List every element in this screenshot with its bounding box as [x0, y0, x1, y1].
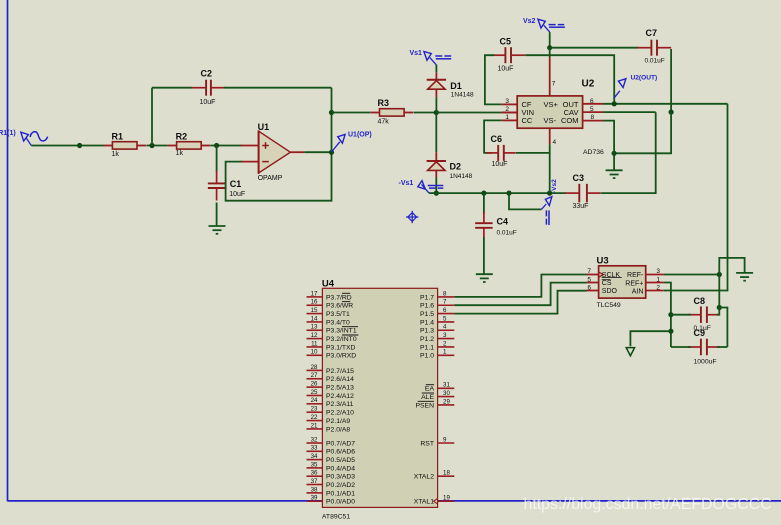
- U2 pin 1 CC stub: [502, 119, 518, 121]
- svg-text:P0.3/AD3: P0.3/AD3: [326, 474, 355, 481]
- U4 pin 8 P1.7: [420, 290, 454, 301]
- U4 pin 3 P1.2: [420, 332, 454, 343]
- capacitor C2: [192, 80, 226, 96]
- diode D2: [427, 161, 446, 170]
- svg-text:C9: C9: [694, 328, 706, 338]
- wire negative rail: [436, 192, 566, 194]
- svg-text:-Vs2: -Vs2: [551, 179, 558, 193]
- U4 pin 10 P3.0/RXD: [307, 349, 357, 360]
- U2 pin 2 VIN stub: [502, 111, 518, 113]
- diode D1: [427, 80, 446, 89]
- svg-text:1000uF: 1000uF: [694, 358, 717, 365]
- wire R3 to node E: [414, 112, 437, 114]
- wire node J down to U2 VS+ pin 7: [549, 48, 551, 96]
- svg-text:P3.3/INT1: P3.3/INT1: [326, 328, 357, 335]
- wire C5 left to CF pin: [485, 55, 502, 104]
- label C7 value 0.01uF: [645, 57, 665, 64]
- capacitor C5: [491, 47, 525, 63]
- label C8: [694, 296, 706, 306]
- wire Vs2 down to node J: [549, 32, 551, 48]
- node K junction C7/CAV crossing: [669, 110, 674, 115]
- wire C8 right bend up to node O: [717, 308, 719, 315]
- U4 pin 13 P3.3/INT1: [307, 324, 359, 335]
- node O junction C8 right: [717, 305, 722, 310]
- svg-text:P0.4/AD4: P0.4/AD4: [326, 465, 355, 472]
- svg-text:COM: COM: [561, 116, 579, 125]
- svg-text:24: 24: [311, 397, 318, 404]
- node M junction OUT/C5: [612, 101, 617, 106]
- wire CAV pin to C3 riser: [603, 111, 656, 113]
- svg-text:P2.5/A13: P2.5/A13: [326, 385, 354, 392]
- wire C8 left lead rail: [671, 314, 691, 316]
- svg-text:10uF: 10uF: [498, 65, 514, 72]
- label C4 value 0.01uF: [497, 230, 517, 237]
- U4 pin 24 P2.3/A11: [307, 397, 354, 408]
- svg-text:P2.2/A10: P2.2/A10: [326, 410, 354, 417]
- wire C1 to ground: [216, 203, 218, 227]
- wire P1.7 to U3 SCLK: [454, 275, 586, 297]
- U2 pin 8 COM stub: [583, 120, 603, 122]
- wire REF- ground hook: [719, 258, 744, 275]
- label U1: [258, 122, 270, 132]
- ground below C4: [476, 274, 493, 282]
- U4 pin 37 P0.2/AD2: [307, 478, 356, 489]
- pin 3 stub CF: [502, 103, 518, 105]
- sheet border bottom edge: [8, 500, 781, 502]
- label U2(OUT): [631, 74, 658, 81]
- U2 pin 5 CAV stub: [583, 111, 603, 113]
- label C2: [201, 69, 213, 79]
- svg-text:Vs1: Vs1: [410, 50, 423, 57]
- U4 pin 12 P3.2/INT0: [307, 332, 359, 343]
- svg-text:P2.4/A12: P2.4/A12: [326, 393, 354, 400]
- label C8 value 0.1uF: [694, 325, 711, 332]
- U3 clock mark: [599, 272, 604, 277]
- label R3: [378, 98, 390, 108]
- svg-text:ALE: ALE: [421, 394, 434, 401]
- U4 pin 31 EA: [425, 382, 454, 393]
- U2 pin 4 VS- stub: [549, 128, 551, 144]
- U3 SCLK underline: [602, 277, 622, 279]
- ground for REF-: [736, 273, 753, 281]
- wire C6 right to VS- line: [516, 152, 550, 154]
- wire R2 to op-amp + input: [210, 145, 241, 147]
- U4 pin 35 P0.4/AD4: [307, 461, 356, 472]
- input sine wave symbol: [30, 132, 47, 141]
- U4 pin 32 P0.7/AD7: [307, 436, 356, 447]
- wire C5 right to OUT node: [525, 55, 614, 104]
- node B junction R2/C1: [214, 143, 219, 148]
- svg-text:11: 11: [311, 340, 318, 347]
- U3 left pin numbers 7 5 6: [587, 268, 591, 291]
- U4 pin 15 P3.5/T1: [307, 307, 351, 318]
- svg-text:R3: R3: [378, 98, 390, 108]
- U2 left pin numbers 3 2 1: [505, 98, 509, 121]
- U4 pin 17 P3.7/RD: [307, 290, 352, 301]
- svg-text:P1.5: P1.5: [420, 311, 434, 318]
- svg-text:4: 4: [443, 324, 447, 331]
- power terminal -Vs1: [418, 181, 444, 193]
- svg-text:P2.7/A15: P2.7/A15: [326, 368, 354, 375]
- U4 pin 30 ALE: [421, 390, 454, 401]
- svg-text:25: 25: [311, 389, 318, 396]
- svg-text:P3.2/INT0: P3.2/INT0: [326, 336, 357, 343]
- wire P1.5 to U3 SDO: [454, 291, 586, 314]
- U4 pin 21 P2.0/A8: [307, 422, 351, 433]
- U4 pin 27 P2.6/A14: [307, 372, 355, 383]
- svg-text:U4: U4: [322, 278, 335, 289]
- node C output junction: [329, 150, 334, 155]
- label C6 value 10uF: [492, 161, 508, 168]
- U2 pin labels centre: [544, 100, 559, 125]
- svg-text:AIN: AIN: [632, 288, 644, 295]
- svg-text:0.01uF: 0.01uF: [645, 57, 665, 64]
- svg-text:AD736: AD736: [583, 149, 604, 156]
- wire C7 branch down to COM line: [614, 112, 671, 153]
- svg-text:U2: U2: [582, 79, 595, 90]
- wire Vs1 to D1: [435, 65, 437, 80]
- wire op-amp - input feedback: [226, 152, 332, 200]
- svg-text:C6: C6: [491, 134, 503, 144]
- U2 right pin numbers 6 5 8: [590, 98, 595, 121]
- U4 pin 33 P0.6/AD6: [307, 445, 356, 456]
- svg-text:C3: C3: [573, 173, 585, 183]
- svg-text:OPAMP: OPAMP: [258, 175, 283, 182]
- power terminal -Vs2: [541, 197, 552, 225]
- wire D2 to node F: [435, 171, 437, 194]
- wire -Vs1 to node F: [429, 192, 436, 194]
- U2 pin labels right: [561, 100, 579, 125]
- label U1 type OPAMP: [258, 175, 283, 182]
- svg-text:P1.0: P1.0: [420, 353, 434, 360]
- ground below COM: [606, 170, 623, 178]
- svg-text:29: 29: [443, 398, 450, 405]
- U3 CS overline: [602, 279, 611, 281]
- svg-text:VS-: VS-: [544, 116, 557, 125]
- node G junction C4: [481, 191, 486, 196]
- wire op-amp output to node C: [304, 151, 331, 153]
- U4 pin 28 P2.7/A15: [307, 364, 355, 375]
- node E junction diodes/VIN: [434, 110, 439, 115]
- svg-text:U2(OUT): U2(OUT): [631, 74, 658, 81]
- svg-text:18: 18: [443, 470, 450, 477]
- capacitor C9: [688, 339, 720, 356]
- label U3: [597, 256, 609, 267]
- capacitor C3: [565, 184, 601, 203]
- wire -Vs2 tap jog: [509, 193, 541, 209]
- pin 4 number: [553, 139, 557, 146]
- capacitor C1: [208, 171, 226, 201]
- svg-text:U1(OP): U1(OP): [348, 131, 372, 138]
- svg-text:17: 17: [311, 290, 318, 297]
- U4 pin 39 P0.0/AD0: [307, 495, 356, 506]
- svg-text:D2: D2: [450, 161, 462, 171]
- wire C4 to ground: [483, 237, 485, 274]
- svg-text:P2.1/A9: P2.1/A9: [326, 418, 350, 425]
- svg-text:16: 16: [311, 299, 318, 306]
- svg-text:P0.1/AD1: P0.1/AD1: [326, 490, 355, 497]
- svg-text:5: 5: [443, 315, 447, 322]
- resistor R2: [168, 142, 211, 149]
- node N junction REF-: [717, 272, 722, 277]
- wire node O to right rail: [719, 308, 727, 348]
- U4 pin 1 P1.0: [420, 349, 454, 360]
- svg-text:27: 27: [311, 372, 318, 379]
- ground below C1: [209, 226, 226, 234]
- svg-text:14: 14: [311, 315, 318, 322]
- svg-text:https://blog.csdn.net/AEFDOGCC: https://blog.csdn.net/AEFDOGCCC: [524, 496, 772, 513]
- svg-text:Vs2: Vs2: [523, 18, 536, 25]
- U2 pin 6 OUT stub: [583, 103, 603, 105]
- U4 pin 2 P1.1: [420, 340, 454, 351]
- wire C2 rail left segment: [152, 87, 192, 89]
- label -Vs2 rotated: [551, 179, 558, 193]
- svg-text:33uF: 33uF: [573, 203, 589, 210]
- label C1: [230, 179, 242, 189]
- label D2: [450, 161, 462, 171]
- svg-text:38: 38: [311, 486, 318, 493]
- wire node N down to C8 node: [718, 275, 720, 308]
- label R2 value 1k: [176, 150, 184, 157]
- node input junction: [77, 143, 82, 148]
- svg-text:P3.5/T1: P3.5/T1: [326, 311, 350, 318]
- U4 pin 38 P0.1/AD1: [307, 486, 356, 497]
- svg-text:CC: CC: [522, 116, 533, 125]
- U4 pin 29 PSEN: [415, 398, 454, 409]
- svg-text:12: 12: [311, 332, 318, 339]
- wire node G to C4: [483, 193, 485, 214]
- label D2 type 1N4148: [450, 173, 473, 180]
- sheet border left edge: [7, 0, 9, 501]
- U4 pin 6 P1.5: [420, 307, 454, 318]
- svg-text:7: 7: [552, 80, 556, 87]
- svg-text:XTAL2: XTAL2: [414, 474, 434, 481]
- power terminal Vs1 label: [410, 50, 423, 57]
- label C9 value 1000uF: [694, 358, 717, 365]
- U4 pin 11 P3.1/TXD: [307, 340, 356, 351]
- svg-text:13: 13: [311, 324, 318, 331]
- svg-text:REF+: REF+: [625, 280, 643, 287]
- terminal arrow down: [626, 348, 634, 356]
- svg-text:6: 6: [443, 307, 447, 314]
- label C9: [694, 328, 706, 338]
- U2 pin labels left: [522, 100, 535, 125]
- svg-text:23: 23: [311, 406, 318, 413]
- wire C9 left lead rail: [671, 346, 691, 348]
- svg-text:-Vs1: -Vs1: [399, 180, 414, 187]
- svg-text:1N4148: 1N4148: [451, 91, 474, 98]
- svg-text:P0.0/AD0: P0.0/AD0: [326, 499, 355, 506]
- U4 pin 26 P2.5/A13: [307, 381, 355, 392]
- svg-text:10uF: 10uF: [229, 191, 245, 198]
- node L junction COM riser: [612, 151, 617, 156]
- U4 pin 36 P0.3/AD3: [307, 470, 356, 481]
- svg-text:D1: D1: [450, 81, 462, 91]
- svg-text:P1.3: P1.3: [420, 328, 434, 335]
- svg-text:19: 19: [443, 495, 450, 502]
- wire tap to output terminal: [630, 331, 671, 346]
- svg-text:C4: C4: [497, 216, 509, 226]
- node D junction R3 branch: [329, 110, 334, 115]
- svg-text:10: 10: [311, 349, 318, 356]
- svg-text:TLC549: TLC549: [597, 302, 621, 309]
- wire C2 rail right segment: [224, 87, 332, 89]
- label C3 value 33uF: [573, 203, 589, 210]
- node H junction -Vs2 tap: [506, 191, 511, 196]
- svg-text:1k: 1k: [176, 150, 184, 157]
- svg-text:VS+: VS+: [544, 100, 559, 109]
- power terminal -Vs1 label: [399, 180, 414, 187]
- wire VS- pin down to node I: [549, 144, 551, 193]
- wire node A up to C2 rail: [151, 88, 153, 146]
- power terminal Vs2: [538, 19, 565, 32]
- wire node B down to C1: [216, 146, 218, 172]
- node Q junction output terminal tap: [668, 329, 673, 334]
- label R1 value 1k: [112, 151, 120, 158]
- node A junction R1-R2/C2: [149, 143, 154, 148]
- svg-text:P0.6/AD6: P0.6/AD6: [326, 449, 355, 456]
- U4 pin 4 P1.3: [420, 324, 454, 335]
- label C2 value 10uF: [200, 99, 216, 106]
- node F junction negative rail left: [434, 191, 439, 196]
- wire REF+ to C8/C9 left rail: [664, 283, 671, 348]
- terminal arrow U2(OUT): [614, 79, 626, 98]
- svg-text:AT89C51: AT89C51: [322, 514, 350, 521]
- svg-text:P0.7/AD7: P0.7/AD7: [326, 440, 355, 447]
- label D1 type 1N4148: [451, 91, 474, 98]
- svg-text:10uF: 10uF: [200, 99, 216, 106]
- svg-text:P0.2/AD2: P0.2/AD2: [326, 482, 355, 489]
- U4 pin 22 P2.1/A9: [307, 414, 351, 425]
- wire R1 to R2: [146, 145, 167, 147]
- power terminal Vs1: [424, 52, 451, 65]
- wire OUT pin to riser: [603, 103, 728, 105]
- svg-text:22: 22: [311, 414, 318, 421]
- U4 pin 19 XTAL1: [414, 495, 455, 506]
- label R3 value 47k: [378, 118, 390, 125]
- svg-text:REF-: REF-: [627, 272, 644, 279]
- svg-text:C2: C2: [201, 69, 213, 79]
- svg-text:P3.0/RXD: P3.0/RXD: [326, 353, 356, 360]
- svg-text:33: 33: [311, 445, 318, 452]
- svg-text:P3.6/WR: P3.6/WR: [326, 303, 353, 310]
- wire C7 right down to CAV node: [670, 49, 672, 112]
- svg-text:7: 7: [443, 299, 447, 306]
- node J junction Vs2 rail: [547, 45, 552, 50]
- label U1(OP): [348, 131, 372, 138]
- wire P1.6 to U3 CS: [454, 283, 586, 306]
- svg-text:36: 36: [311, 470, 318, 477]
- resistor R1: [103, 142, 146, 149]
- wire node E to D2: [435, 113, 437, 161]
- svg-text:2: 2: [443, 340, 447, 347]
- svg-text:0.01uF: 0.01uF: [497, 230, 517, 237]
- svg-text:39: 39: [311, 495, 318, 502]
- U4 pin 34 P0.5/AD5: [307, 453, 356, 464]
- svg-text:37: 37: [311, 478, 318, 485]
- svg-text:10uF: 10uF: [492, 161, 508, 168]
- svg-text:4: 4: [553, 139, 557, 146]
- svg-text:47k: 47k: [378, 118, 390, 125]
- label R2: [176, 131, 188, 141]
- svg-text:P2.0/A8: P2.0/A8: [326, 426, 350, 433]
- svg-text:P1.1: P1.1: [420, 344, 434, 351]
- svg-text:PSEN: PSEN: [415, 402, 434, 409]
- op-amp U1: [241, 131, 305, 174]
- svg-text:P1.7: P1.7: [420, 294, 434, 301]
- svg-text:3: 3: [443, 332, 447, 339]
- svg-text:21: 21: [311, 422, 318, 429]
- svg-text:34: 34: [311, 453, 318, 460]
- label U2: [582, 79, 595, 90]
- label C1 value 10uF: [229, 191, 245, 198]
- wire CC pin to C6: [484, 120, 502, 152]
- input terminal R1(1) label: [0, 130, 16, 137]
- svg-text:SCLK: SCLK: [602, 272, 621, 279]
- U3 pin stubs left: [587, 275, 599, 291]
- wire REF- to ground net: [664, 274, 720, 276]
- svg-text:RST: RST: [420, 440, 434, 447]
- svg-text:30: 30: [443, 390, 450, 397]
- U3 right pin numbers 3 1 2: [656, 268, 660, 291]
- label U4 type AT89C51: [322, 514, 350, 521]
- svg-text:15: 15: [311, 307, 318, 314]
- U4 pin 14 P3.4/T0: [307, 315, 351, 326]
- svg-text:C8: C8: [694, 296, 706, 306]
- wire node D to R3: [332, 112, 371, 114]
- terminal arrow U1(OP): [332, 134, 346, 152]
- U4 pin 9 RST: [420, 436, 454, 447]
- label C3: [573, 173, 585, 183]
- wire input to R1: [31, 145, 103, 147]
- capacitor C8: [688, 306, 720, 323]
- ADC U3 TLC549 body: [599, 266, 646, 298]
- wire node C up to node D: [331, 88, 333, 153]
- U4 pin 5 P1.4: [420, 315, 454, 326]
- label U4: [322, 278, 335, 289]
- U4 pin 23 P2.2/A10: [307, 406, 355, 417]
- U4 pin 25 P2.4/A12: [307, 389, 355, 400]
- svg-text:SDO: SDO: [602, 288, 618, 295]
- svg-text:CS: CS: [602, 280, 612, 287]
- svg-text:P2.6/A14: P2.6/A14: [326, 376, 354, 383]
- svg-text:P1.6: P1.6: [420, 303, 434, 310]
- svg-text:35: 35: [311, 461, 318, 468]
- label C6: [491, 134, 503, 144]
- wire COM pin to ground riser: [603, 121, 614, 171]
- svg-text:P0.5/AD5: P0.5/AD5: [326, 457, 355, 464]
- label U2 type AD736: [583, 149, 604, 156]
- svg-text:C5: C5: [500, 36, 512, 46]
- capacitor C7: [637, 40, 671, 56]
- svg-text:P1.4: P1.4: [420, 319, 434, 326]
- power terminal Vs2 label: [523, 18, 536, 25]
- U4 pin 7 P1.6: [420, 299, 454, 310]
- label C5 value 10uF: [498, 65, 514, 72]
- svg-text:31: 31: [443, 382, 450, 389]
- capacitor C4: [475, 212, 493, 240]
- svg-text:C1: C1: [230, 179, 242, 189]
- U3 pin labels left: [602, 272, 621, 295]
- wire Vs2 rail to C7: [550, 47, 639, 49]
- svg-text:9: 9: [443, 436, 447, 443]
- svg-text:26: 26: [311, 381, 318, 388]
- capacitor C6: [486, 145, 516, 161]
- U3 pin stubs right: [646, 275, 664, 291]
- svg-text:3: 3: [505, 98, 509, 105]
- U4 pin 18 XTAL2: [414, 470, 455, 481]
- pin 7 number: [552, 80, 556, 87]
